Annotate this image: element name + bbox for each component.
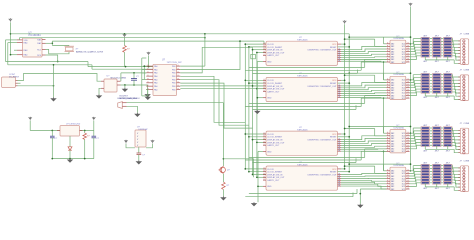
wire block feed vertical 4: [256, 53, 258, 178]
svg-text:UNSHIFTED 7-SEGMENT_OUT: UNSHIFTED 7-SEGMENT_OUT: [307, 140, 337, 142]
resistor R1 (pullup): [123, 46, 127, 53]
wire gnd vertical blocks 3-4: [257, 151, 259, 202]
svg-text:PA0: PA0: [154, 68, 157, 71]
wire gap nest 4: [360, 188, 386, 190]
svg-text:PA0: PA0: [154, 75, 157, 78]
svg-text:UNSHIFTED 7-SEGMENT_OUT: UNSHIFTED 7-SEGMENT_OUT: [307, 86, 337, 88]
svg-text:VDD: VDD: [24, 40, 29, 42]
ground (U3 left): [97, 95, 101, 98]
wire left bus vertical C: [7, 43, 9, 65]
svg-text:VCC: VCC: [332, 80, 337, 82]
power flag VDD (top left): [9, 18, 13, 22]
svg-text:PB0: PB0: [172, 79, 176, 81]
U13 right pins: [406, 170, 410, 172]
resistor network bodies: [421, 127, 430, 130]
wire U2 gnd: [146, 90, 148, 96]
svg-text:RESET: RESET: [330, 172, 337, 174]
X4 gnd pin: [263, 185, 266, 187]
X3 gnd pin: [263, 150, 266, 152]
U12 left pins: [386, 132, 390, 134]
wire gnd vertical blocks 1-2: [256, 62, 258, 111]
svg-text:CARRY_OUT: CARRY_OUT: [267, 144, 280, 147]
connector CON1 DC input: [2, 77, 16, 88]
wire VCC tap: [410, 43, 412, 45]
wire wrap net B: [345, 128, 375, 130]
wire crystal tap down: [46, 55, 58, 62]
capacitor C2 (U3 out): [133, 73, 135, 79]
IC X2 74HC4026 counter block: [266, 77, 338, 101]
svg-text:CLOCK: CLOCK: [267, 169, 275, 171]
svg-text:ULN2003A: ULN2003A: [394, 73, 405, 76]
junction rail taps: [125, 66, 127, 68]
wire net L2: [180, 41, 240, 69]
wire U1 pin feeds: [6, 39, 18, 41]
wire U2 direct feeds to block2: [180, 85, 266, 87]
X1 gnd pin: [263, 61, 266, 63]
wires rows to connector: [453, 39, 461, 41]
X2 gnd pin: [263, 97, 266, 99]
U1 left pins: [17, 39, 23, 41]
wire U3 in gnd: [99, 88, 101, 94]
U1 right pins: [42, 39, 46, 41]
svg-text:PB0: PB0: [172, 86, 176, 88]
svg-text:PB0: PB0: [172, 76, 176, 78]
wire rail A: [6, 61, 89, 63]
svg-text:GND: GND: [267, 151, 272, 153]
svg-text:CLOCK_INHIBIT: CLOCK_INHIBIT: [267, 47, 283, 49]
wire wrap net A: [349, 126, 410, 128]
wires block to driver staircase: [341, 173, 386, 174]
U11 right pins: [406, 79, 410, 81]
wire buzzer gnd: [127, 106, 138, 113]
wire VCC vertical: [344, 24, 346, 169]
svg-text:GND: GND: [267, 61, 272, 63]
svg-text:74HC4026: 74HC4026: [297, 164, 308, 166]
wire wrap net A: [349, 72, 410, 74]
U10 right pins: [406, 43, 410, 45]
wire gap nest 1: [365, 58, 387, 60]
svg-text:PB0: PB0: [172, 89, 176, 91]
ground (U3 center): [123, 88, 127, 91]
svg-text:ULN2003A: ULN2003A: [394, 37, 405, 40]
capacitor C5: [137, 152, 142, 154]
svg-text:PA0: PA0: [154, 78, 157, 81]
resistor network rows: [410, 75, 414, 80]
svg-text:CARRY_OUT: CARRY_OUT: [267, 90, 280, 93]
capacitor C4 (reg out): [93, 131, 95, 137]
wires rows to connector: [453, 75, 461, 77]
svg-text:74HC4026: 74HC4026: [297, 40, 308, 42]
wire reg rail: [30, 130, 94, 132]
wires block to driver staircase: [341, 46, 386, 49]
X4 left pins: [263, 168, 266, 170]
wire gap nest 2: [365, 95, 387, 97]
wire long top net: [11, 33, 350, 35]
wire buzzer signal: [127, 102, 224, 104]
wire block pin feeds: [245, 79, 266, 81]
resistor network rows: [410, 166, 414, 171]
wire block feed vertical 1: [244, 44, 246, 169]
U2 left pin wires: [144, 65, 146, 67]
CON1 pins: [16, 80, 18, 82]
svg-text:PB0: PB0: [172, 66, 176, 68]
resistor network bodies: [421, 73, 430, 76]
ground (block2): [255, 110, 259, 113]
X3 vcc pin: [338, 133, 342, 135]
wire Q1 emitter: [222, 174, 224, 182]
wire net L6: [180, 80, 249, 126]
wires rows to connector: [453, 128, 461, 130]
svg-text:DISPLAY_EN_OUT: DISPLAY_EN_OUT: [267, 176, 285, 179]
wire net L1 (top long): [204, 34, 206, 66]
wire U3 gnd rail: [121, 84, 148, 86]
ground (U4): [137, 160, 141, 163]
svg-text:RESET: RESET: [330, 47, 337, 49]
wire wrap net A: [349, 36, 410, 38]
svg-text:PA0: PA0: [154, 88, 157, 91]
wire VCC tap: [410, 132, 412, 134]
ground (U2): [146, 96, 150, 99]
junctions: [51, 130, 53, 132]
svg-text:DISPLAY_EN_IN: DISPLAY_EN_IN: [267, 173, 283, 176]
junctions bottom: [51, 158, 53, 160]
wire RA5 long net: [20, 38, 205, 40]
IC U11 display driver: [390, 76, 406, 99]
svg-text:DC_INPUT: DC_INPUT: [9, 77, 20, 79]
wire to block4 pin: [223, 159, 253, 177]
IC U4 DS32KHZ: [135, 130, 146, 147]
svg-text:VCC: VCC: [332, 134, 337, 136]
wire rail B: [8, 64, 92, 66]
X4 vcc pin: [338, 168, 342, 170]
svg-text:74HC4026: 74HC4026: [297, 129, 308, 131]
wire reg input: [29, 121, 31, 131]
svg-text:RESET: RESET: [330, 83, 337, 85]
wire block feed vertical 3: [252, 47, 254, 174]
svg-text:CON8: CON8: [464, 70, 470, 72]
wire U4 left supply: [126, 144, 135, 148]
svg-text:DISPLAY_EN_IN: DISPLAY_EN_IN: [267, 49, 283, 52]
wire U4 out down: [138, 147, 140, 153]
wire gnd vertical: [53, 65, 55, 98]
svg-text:VCC: VCC: [332, 44, 337, 46]
svg-text:DISPLAY_EN_OUT: DISPLAY_EN_OUT: [267, 141, 285, 144]
svg-text:DISPLAY_EN_OUT: DISPLAY_EN_OUT: [267, 51, 285, 54]
svg-text:CLOCK: CLOCK: [267, 44, 275, 46]
wire wrap net B: [345, 165, 375, 167]
ground (buzzer): [135, 113, 139, 116]
connector J4 CON8: [460, 166, 468, 192]
svg-text:MIC5205-5.0BM5: MIC5205-5.0BM5: [111, 78, 128, 80]
IC U1 PIC16F684: [23, 38, 43, 57]
X1 left pins: [263, 43, 266, 45]
X1 vcc pin: [338, 43, 342, 45]
U2 left pins: [146, 65, 153, 67]
wire left bus vertical B: [5, 40, 7, 62]
resistor network rows: [410, 39, 414, 44]
svg-text:GND: GND: [267, 186, 272, 188]
svg-text:CON8: CON8: [464, 123, 470, 125]
wire wrap net A: [349, 163, 410, 165]
svg-text:PA0: PA0: [154, 72, 157, 75]
ground (reg): [68, 159, 72, 162]
wire block feed vertical 2: [248, 47, 250, 172]
svg-text:PA0: PA0: [154, 85, 157, 88]
wire U3 out to +5V rail: [120, 73, 122, 81]
svg-text:PA0: PA0: [154, 65, 157, 68]
ground (Q1): [221, 196, 225, 199]
wire digit cascade verticals: [383, 62, 385, 80]
wire net L7: [180, 83, 252, 128]
wires block to driver staircase: [341, 136, 386, 140]
U10 left pins: [386, 43, 390, 45]
svg-text:DISPLAY_EN_OUT: DISPLAY_EN_OUT: [267, 88, 285, 91]
svg-text:CARRY_OUT: CARRY_OUT: [267, 179, 280, 182]
wire crystal osc1: [51, 41, 53, 45]
svg-text:CLOCK_INHIBIT: CLOCK_INHIBIT: [267, 172, 283, 174]
wire net L4: [180, 47, 252, 73]
wires block to driver staircase: [341, 83, 386, 86]
wire unit4 gnd: [359, 189, 361, 204]
resistor network bodies: [421, 164, 430, 167]
svg-text:ABRACON_QUARTZ_32768: ABRACON_QUARTZ_32768: [76, 51, 104, 54]
svg-text:DISPLAY_EN_IN: DISPLAY_EN_IN: [267, 139, 283, 142]
buzzer BZ1: [118, 102, 123, 109]
svg-text:CLOCK: CLOCK: [267, 80, 275, 82]
svg-text:74TTC165_DIP: 74TTC165_DIP: [167, 62, 183, 64]
diode D1: [69, 136, 71, 147]
wire R3 to gnd: [222, 190, 224, 197]
connector J3 CON8: [460, 128, 468, 154]
power flag MCLR: [123, 34, 127, 38]
svg-text:PB0: PB0: [172, 83, 176, 85]
ground (CON1): [51, 97, 55, 100]
ground (block4): [252, 202, 256, 205]
power flag U4 right: [151, 140, 155, 144]
wire left bus vertical A: [10, 22, 12, 54]
IC U5 LDO: [60, 126, 80, 136]
svg-text:UNSHIFTED 7-SEGMENT_OUT: UNSHIFTED 7-SEGMENT_OUT: [307, 174, 337, 176]
wire CON1 power out: [18, 74, 102, 82]
IC U13 display driver: [390, 167, 406, 190]
svg-text:PB0: PB0: [172, 73, 176, 75]
wire block pin feeds: [245, 168, 266, 170]
resistor network rows: [410, 128, 414, 133]
svg-text:CLOCK_INHIBIT: CLOCK_INHIBIT: [267, 137, 283, 139]
wire block pin feeds: [245, 133, 266, 135]
U12 right pins: [406, 132, 410, 134]
wire VCC rail vertical: [410, 7, 412, 170]
resistor network bodies: [421, 37, 430, 40]
IC X3 74HC4026 counter block: [266, 131, 338, 155]
svg-text:CARRY_OUT: CARRY_OUT: [267, 54, 280, 57]
connector J2 CON8: [460, 75, 468, 101]
transistor Q1: [219, 166, 226, 174]
wire reg bottom rail: [52, 158, 94, 160]
U3 pins: [101, 80, 104, 82]
net flag: [251, 54, 256, 58]
power flag (VCC rail): [409, 3, 413, 7]
connector J1 CON8: [460, 39, 468, 65]
X4 segment pins: [338, 174, 342, 176]
X2 segment pins: [338, 85, 342, 87]
X2 left pins: [263, 79, 266, 81]
ground (U3 right): [147, 85, 149, 93]
U13 left pins: [386, 170, 390, 172]
power flag +BATT: [28, 117, 32, 121]
wire resistor commons: [424, 183, 426, 187]
IC U10 display driver: [390, 40, 406, 63]
wire VCC tap: [410, 79, 412, 81]
U11 left pins: [386, 79, 390, 81]
U2 left verticals: [141, 58, 143, 96]
svg-text:CLOCK_INHIBIT: CLOCK_INHIBIT: [267, 83, 283, 85]
crystal X1: [65, 45, 75, 47]
power flag U4 left: [124, 140, 128, 144]
svg-text:GND: GND: [267, 98, 272, 100]
power flag +5V: [92, 117, 96, 121]
svg-text:PA0: PA0: [154, 82, 157, 85]
svg-text:VCC: VCC: [332, 169, 337, 171]
wire C5 to gnd: [138, 155, 140, 161]
junction: [10, 54, 12, 56]
resistor R2 (reg): [84, 131, 86, 134]
X3 left pins: [263, 133, 266, 135]
IC U12 display driver: [390, 130, 406, 153]
wire wrap net B: [345, 74, 375, 76]
X1 segment pins: [338, 49, 342, 51]
svg-text:ULN2003A: ULN2003A: [394, 164, 405, 167]
svg-text:74HC4026: 74HC4026: [297, 76, 308, 78]
wire crystal osc2: [46, 49, 70, 53]
IC U2 74HC595: [153, 64, 177, 95]
power flag (U2): [147, 52, 151, 56]
wire R1 to rail: [124, 52, 126, 66]
svg-text:DISPLAY_EN_IN: DISPLAY_EN_IN: [267, 85, 283, 88]
wire CON1 gnd: [18, 85, 54, 87]
svg-text:BUZZER_CHANGZHOU: BUZZER_CHANGZHOU: [118, 97, 141, 100]
IC X1 74HC4026 counter block: [266, 41, 338, 65]
wire flag to R1: [124, 38, 126, 46]
svg-text:PIC16F684: PIC16F684: [29, 34, 42, 37]
svg-text:CON8: CON8: [464, 160, 470, 162]
X3 segment pins: [338, 139, 342, 141]
wire block pin feeds: [245, 43, 266, 45]
wire resistor commons: [424, 145, 426, 149]
wire U4 right supply: [146, 144, 153, 148]
power flag (blocks VCC): [343, 20, 347, 24]
ground (unit4): [358, 204, 362, 207]
svg-text:PB0: PB0: [172, 69, 176, 71]
wires rows to connector: [453, 166, 461, 168]
U2 right pins: [177, 65, 181, 67]
capacitor C3 (reg in): [51, 131, 53, 137]
svg-text:ULN2003A: ULN2003A: [394, 127, 405, 130]
svg-text:CON8: CON8: [464, 33, 470, 35]
U5 pins: [57, 130, 60, 132]
svg-text:CLOCK: CLOCK: [267, 134, 275, 136]
svg-text:UNSHIFTED 7-SEGMENT_OUT: UNSHIFTED 7-SEGMENT_OUT: [307, 50, 337, 52]
wire buzzer net vertical: [222, 103, 224, 166]
resistor R3: [222, 182, 226, 189]
svg-text:DS32KHZ: DS32KHZ: [139, 129, 149, 131]
X2 vcc pin: [338, 79, 342, 81]
wire control vertical (reset): [348, 34, 350, 172]
wire resistor commons: [424, 92, 426, 96]
wire net L5: [180, 76, 245, 122]
IC X4 74HC4026 counter block: [266, 166, 338, 190]
wire flag to U2 rail: [148, 56, 150, 67]
svg-text:U? L4931CZ50: U? L4931CZ50: [66, 124, 81, 126]
wire gap nest 3: [365, 148, 387, 150]
wire VCC tap: [410, 170, 412, 172]
wire resistor commons: [424, 56, 426, 60]
wire wrap net B: [345, 38, 375, 40]
svg-text:RESET: RESET: [330, 137, 337, 139]
IC U3 regulator: [104, 79, 117, 92]
